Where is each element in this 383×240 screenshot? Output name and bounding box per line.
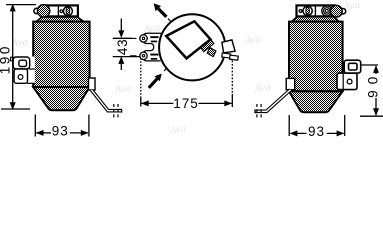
small circle [299, 10, 302, 13]
hatched connector [200, 39, 214, 51]
svg-text:190: 190 [0, 44, 12, 74]
flow arrow top (out) [154, 3, 172, 22]
svg-text:43: 43 [115, 38, 130, 55]
fitting block [297, 5, 335, 16]
circle with ellipse [303, 6, 312, 15]
pipe left view [89, 78, 122, 119]
fitting block [41, 5, 78, 16]
bracket left [11, 57, 35, 84]
fitting lower right [222, 40, 235, 53]
dimension 43 [113, 19, 140, 71]
neck [292, 17, 340, 22]
dimension 90 [360, 65, 383, 116]
small circle [60, 10, 63, 13]
port white ring [34, 8, 39, 13]
svg-text:93: 93 [308, 124, 325, 139]
divider [314, 4, 316, 17]
fitting step bars [222, 53, 231, 58]
svg-text:90: 90 [366, 71, 381, 98]
port hatched circle [37, 5, 49, 17]
body shell (hatched) [33, 22, 89, 111]
svg-text:Ava: Ava [243, 33, 262, 47]
svg-text:175: 175 [173, 96, 199, 111]
flow arrow bottom (in) [149, 68, 167, 88]
ports left of circle [130, 33, 161, 61]
watermark Ava script [10, 0, 361, 137]
rotated square [166, 21, 210, 58]
bracket right [337, 60, 361, 89]
svg-text:Ava: Ava [168, 123, 187, 137]
dimension 175 [141, 58, 233, 107]
circle with ellipse [63, 7, 72, 16]
dimension 93 right [289, 115, 345, 136]
rings circle [322, 6, 332, 16]
divider [57, 4, 59, 17]
neck trapezoid [36, 17, 84, 22]
port hatched circle right [330, 5, 342, 17]
dimension 190 [1, 5, 36, 109]
body shell [289, 22, 343, 92]
big circle [159, 14, 225, 80]
port white ring right [340, 9, 345, 14]
svg-text:Ava: Ava [113, 82, 132, 96]
dimension 93 left [35, 115, 89, 137]
pipe right view [255, 78, 295, 119]
svg-text:93: 93 [52, 123, 69, 138]
svg-text:Ava: Ava [253, 81, 272, 95]
